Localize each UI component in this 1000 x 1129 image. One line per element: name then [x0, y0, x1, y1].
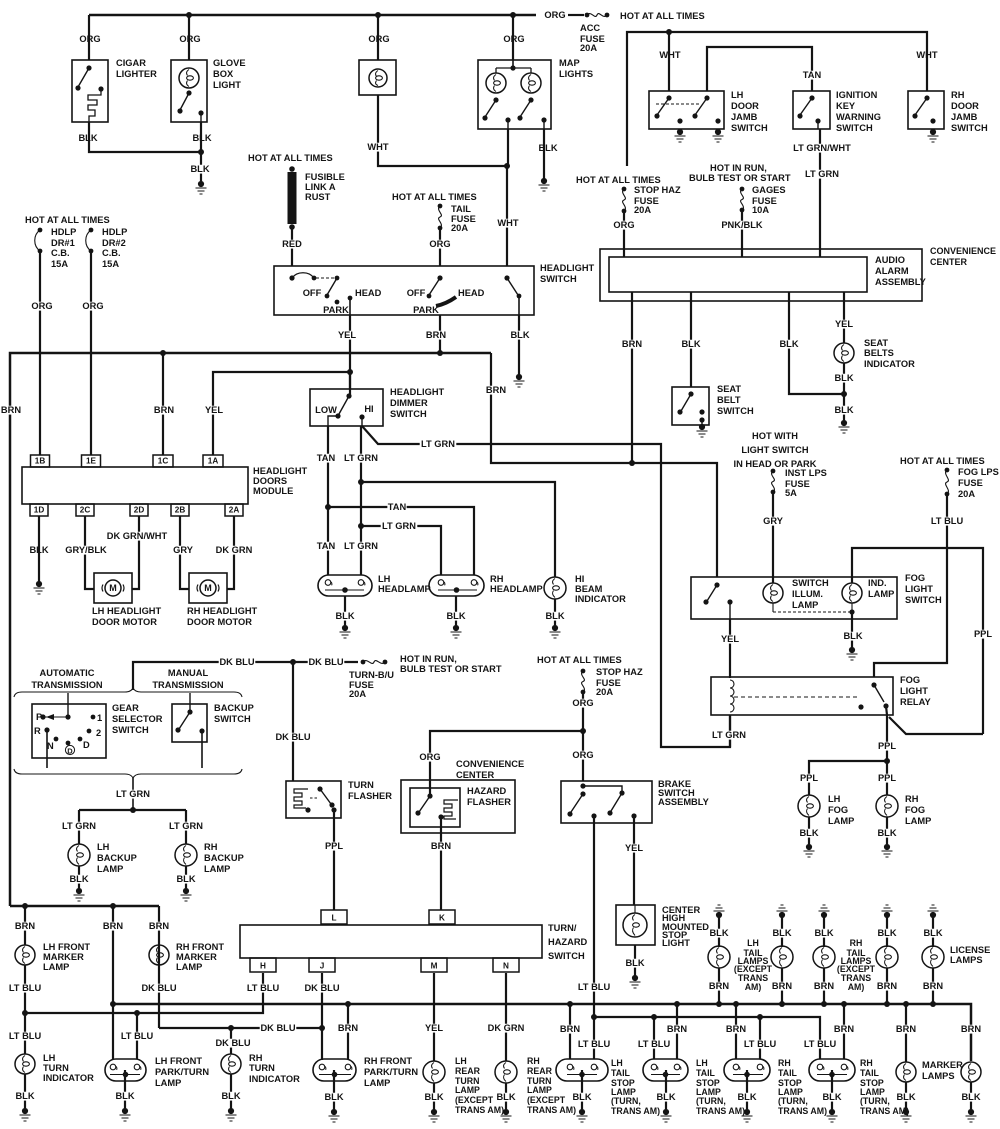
label ORG tail — [430, 240, 449, 249]
svg-text:BLK: BLK — [115, 1091, 134, 1101]
label LT BLU brake — [576, 983, 613, 992]
svg-text:DK GRN: DK GRN — [488, 1023, 525, 1033]
RH front park/turn lamp — [313, 1059, 356, 1081]
wire BLK tail lamp — [781, 915, 783, 947]
wire BLK tail stop — [581, 1070, 583, 1109]
svg-text:ASSEMBLY: ASSEMBLY — [875, 277, 927, 287]
svg-text:BRN: BRN — [667, 1024, 687, 1034]
svg-text:20A: 20A — [596, 687, 613, 697]
svg-text:BLK: BLK — [709, 928, 728, 938]
wire YEL fog switch to relay — [729, 619, 731, 678]
svg-text:ACC: ACC — [580, 23, 600, 33]
label BLK center stop — [625, 959, 644, 968]
label LT BLU LH 2 — [7, 1032, 44, 1041]
svg-text:SWITCH: SWITCH — [905, 595, 942, 605]
ground tail lamp top — [884, 912, 890, 918]
svg-text:LT GRN: LT GRN — [344, 453, 378, 463]
svg-text:SWITCH: SWITCH — [717, 406, 754, 416]
label BLK fog switch — [843, 632, 862, 641]
svg-text:WARNING: WARNING — [836, 112, 881, 122]
LH headlight door motor — [94, 573, 132, 603]
ground RH park/turn — [331, 1109, 337, 1115]
pin 2C — [76, 504, 94, 516]
wire BRN tail lamp — [781, 968, 783, 1004]
svg-text:1B: 1B — [35, 456, 46, 465]
junction LT BLU c2 — [651, 1014, 657, 1020]
wire LT BLU park/turn right pin — [136, 1013, 138, 1059]
seat belts indicator — [834, 343, 854, 363]
svg-text:ORG: ORG — [179, 34, 200, 44]
label BLK hi beam — [545, 612, 564, 621]
svg-text:20A: 20A — [634, 205, 651, 215]
label LT GRN inline 2 — [420, 440, 457, 449]
svg-text:SWITCH: SWITCH — [792, 578, 829, 588]
ground tail stop — [829, 1109, 835, 1115]
svg-text:BRN: BRN — [338, 1023, 358, 1033]
svg-text:BRN: BRN — [431, 841, 451, 851]
ground LH park/turn — [122, 1108, 128, 1114]
brace transmissions top — [14, 688, 242, 697]
label BRN c4 — [834, 1025, 853, 1034]
svg-text:SWITCH: SWITCH — [548, 951, 585, 961]
label PNK/BLK — [721, 221, 763, 230]
wire dome WHT — [378, 95, 507, 166]
svg-text:CONVENIENCE: CONVENIENCE — [930, 246, 996, 256]
svg-text:N: N — [47, 741, 54, 751]
svg-text:BLK: BLK — [324, 1092, 343, 1102]
wire BRN c2 — [676, 1004, 678, 1059]
svg-text:LAMP: LAMP — [176, 962, 202, 972]
wire DK BLU pin J — [321, 973, 323, 1060]
svg-text:PPL: PPL — [800, 773, 818, 783]
ground tail stop — [744, 1109, 750, 1115]
svg-text:LT BLU: LT BLU — [578, 1039, 611, 1049]
svg-text:FOG: FOG — [905, 805, 925, 815]
wire glove BLK down — [200, 122, 202, 181]
svg-text:BLK: BLK — [572, 1092, 591, 1102]
svg-text:INDICATOR: INDICATOR — [249, 1074, 300, 1084]
label BLK — [510, 331, 529, 340]
svg-text:DOOR: DOOR — [951, 101, 979, 111]
wire BLK tail lamp — [718, 915, 720, 947]
label BRN tail lamp — [772, 982, 791, 991]
label DK BLU 2 — [308, 658, 345, 667]
wire DK BLU to turn flasher — [292, 662, 294, 781]
svg-text:HEAD: HEAD — [458, 288, 485, 298]
svg-text:LH: LH — [611, 1058, 623, 1068]
svg-text:1: 1 — [97, 713, 102, 723]
svg-text:YEL: YEL — [338, 330, 356, 340]
wire BLK tail stop — [746, 1070, 748, 1109]
wire ORG to brake switch — [582, 694, 584, 781]
svg-text:OFF: OFF — [407, 288, 426, 298]
svg-text:REAR: REAR — [455, 1066, 481, 1076]
svg-text:BELTS: BELTS — [864, 348, 894, 358]
junction BRN tail lamp — [716, 1001, 722, 1007]
wire LT BLU to LH turn ind — [24, 1013, 26, 1054]
svg-text:DOOR: DOOR — [731, 101, 759, 111]
svg-text:BLK: BLK — [15, 1091, 34, 1101]
svg-text:ORG: ORG — [368, 34, 389, 44]
ground tail lamp top — [779, 912, 785, 918]
ground LH fog — [806, 844, 812, 850]
junction blk fog switch — [849, 609, 854, 614]
label LT BLU c4 — [802, 1040, 839, 1049]
svg-text:PPL: PPL — [325, 841, 343, 851]
ground LH door jamb 1 — [677, 129, 683, 135]
wire BRN main bus — [113, 1004, 971, 1061]
switch pivot 2 — [437, 275, 442, 280]
svg-text:LT BLU: LT BLU — [638, 1039, 671, 1049]
label BLK marker 2 — [961, 1093, 980, 1102]
svg-text:GAGES: GAGES — [752, 185, 786, 195]
svg-text:M: M — [109, 583, 117, 593]
svg-text:LIGHTS: LIGHTS — [559, 69, 593, 79]
svg-text:TAN: TAN — [317, 453, 336, 463]
junction LT BLU rear — [591, 1014, 597, 1020]
ground LH headlamp — [342, 625, 348, 631]
label BLK LH park — [115, 1092, 134, 1101]
label PPL right — [973, 630, 992, 639]
svg-text:AM): AM) — [848, 982, 865, 992]
svg-text:BRN: BRN — [426, 330, 446, 340]
label BLK LH backup — [69, 875, 88, 884]
tail lamp — [876, 946, 898, 968]
wire BRN LH front marker — [24, 906, 26, 945]
RH rear turn lamp — [495, 1061, 517, 1083]
svg-text:MARKER: MARKER — [176, 952, 217, 962]
svg-text:2A: 2A — [229, 505, 240, 514]
fuse ACC — [585, 13, 590, 18]
svg-text:GRY/BLK: GRY/BLK — [65, 545, 107, 555]
wire BLK to seat belt switch — [690, 292, 692, 387]
label BRN tail lamp — [877, 982, 896, 991]
junction LT GRN hi beam — [358, 479, 364, 485]
junction PPL — [884, 758, 890, 764]
label PPL relay — [877, 742, 896, 751]
center high mounted stop light — [616, 905, 655, 945]
wire RED to headlight switch — [291, 229, 293, 266]
label BRN RH park — [338, 1024, 357, 1033]
svg-text:LT GRN: LT GRN — [344, 541, 378, 551]
wire ORG 1B — [39, 253, 41, 455]
junction DK BLU turn ind — [228, 1025, 234, 1031]
svg-text:DOOR MOTOR: DOOR MOTOR — [92, 617, 157, 627]
svg-text:GEAR: GEAR — [112, 703, 139, 713]
svg-text:FOG: FOG — [905, 573, 925, 583]
svg-text:RH: RH — [490, 574, 504, 584]
fuse STOP HAZ 20A — [622, 187, 627, 192]
svg-text:HOT AT ALL TIMES: HOT AT ALL TIMES — [576, 175, 661, 185]
label BLK LH rear — [424, 1093, 443, 1102]
turn flasher — [286, 781, 341, 818]
wire ORG to headlight switch — [439, 230, 441, 266]
svg-text:1E: 1E — [86, 456, 97, 465]
label YEL 1A — [204, 406, 223, 415]
label BLK audio 2 — [779, 340, 798, 349]
svg-text:TRANS AM): TRANS AM) — [455, 1105, 504, 1115]
svg-text:D: D — [67, 746, 73, 755]
junction WHT — [504, 163, 510, 169]
wire BLK LH headlamp — [344, 596, 346, 625]
svg-text:20A: 20A — [349, 689, 366, 699]
svg-text:RH HEADLIGHT: RH HEADLIGHT — [187, 606, 258, 616]
wire top ORG bus — [89, 14, 536, 17]
wire GRY/BLK 2C — [85, 516, 94, 589]
junction BRN tail lamp — [821, 1001, 827, 1007]
svg-text:SWITCH: SWITCH — [731, 123, 768, 133]
label BLK tail stop — [656, 1093, 675, 1102]
wire PPL turn flasher — [333, 810, 335, 910]
label BRN marker 2 — [961, 1025, 980, 1034]
switch pivot 3 — [504, 275, 509, 280]
svg-text:HDLP: HDLP — [51, 227, 76, 237]
svg-text:ORG: ORG — [82, 301, 103, 311]
ground LH backup — [76, 888, 82, 894]
svg-text:(EXCEPT: (EXCEPT — [455, 1095, 494, 1105]
svg-text:PPL: PPL — [974, 629, 992, 639]
pin 1A — [203, 455, 223, 467]
junction BRN LH marker — [22, 903, 28, 909]
junction BRN headlight switch — [437, 350, 443, 356]
svg-text:RH: RH — [527, 1056, 540, 1066]
wire ORG drop to dome light — [377, 15, 379, 60]
wire DK BLU main — [133, 662, 358, 690]
svg-text:LIGHTER: LIGHTER — [116, 69, 157, 79]
svg-text:MANUAL: MANUAL — [168, 668, 209, 678]
svg-text:MARKER: MARKER — [922, 1060, 963, 1070]
svg-text:HEADLAMP: HEADLAMP — [490, 584, 543, 594]
label ORG brake 2 — [573, 751, 592, 760]
label BLK tail lamp — [814, 929, 833, 938]
wire BRN c3 — [735, 1004, 737, 1059]
svg-text:HEADLIGHT: HEADLIGHT — [540, 263, 595, 273]
RH front marker lamp — [149, 945, 169, 965]
LH rear turn lamp — [423, 1061, 445, 1083]
svg-text:INDICATOR: INDICATOR — [864, 359, 915, 369]
wire BLK RH fog — [886, 817, 888, 844]
svg-text:IGNITION: IGNITION — [836, 90, 878, 100]
svg-text:BLK: BLK — [961, 1092, 980, 1102]
svg-text:HEADLIGHT: HEADLIGHT — [253, 466, 308, 476]
brake switch assembly — [561, 781, 652, 823]
junction BRN park — [110, 903, 116, 909]
svg-text:HOT AT ALL TIMES: HOT AT ALL TIMES — [25, 215, 110, 225]
wire LT GRN to fog relay — [362, 426, 730, 747]
map lights — [478, 60, 551, 129]
ground hi beam — [552, 625, 558, 631]
wire BRN tail lamp — [886, 968, 888, 1004]
wire BLK LH park/turn — [124, 1070, 126, 1108]
svg-text:FUSE: FUSE — [958, 478, 983, 488]
svg-text:LAMP: LAMP — [204, 864, 230, 874]
svg-text:LT BLU: LT BLU — [744, 1039, 777, 1049]
svg-text:JAMB: JAMB — [731, 112, 758, 122]
wire BLK from audio alarm — [789, 292, 844, 394]
svg-text:HAZARD: HAZARD — [548, 937, 588, 947]
svg-text:BLK: BLK — [221, 1091, 240, 1101]
pin K — [429, 910, 455, 924]
LH tail stop lamp — [556, 1059, 608, 1081]
svg-text:ORG: ORG — [503, 34, 524, 44]
svg-text:YEL: YEL — [205, 405, 223, 415]
svg-text:BRN: BRN — [834, 1024, 854, 1034]
svg-text:LT GRN: LT GRN — [382, 521, 416, 531]
svg-text:TAN: TAN — [317, 541, 336, 551]
svg-text:LAMP: LAMP — [43, 962, 69, 972]
label BRN — [426, 331, 445, 340]
wire BLK tail lamp — [886, 915, 888, 947]
svg-text:PARK: PARK — [413, 305, 439, 315]
svg-text:SWITCH: SWITCH — [951, 123, 988, 133]
wire BLK LH turn ind — [24, 1074, 26, 1108]
wire cigar BLK to junction — [89, 122, 201, 152]
wire LT GRN/WHT down — [819, 129, 821, 257]
svg-text:TRANS AM): TRANS AM) — [778, 1106, 827, 1116]
svg-text:LAMP: LAMP — [905, 816, 931, 826]
wire BRN from headlight switch — [439, 315, 441, 353]
label PPL LH — [799, 774, 818, 783]
wire LT GRN to RH headlamp — [361, 526, 441, 575]
svg-text:DK BLU: DK BLU — [275, 732, 310, 742]
svg-text:BRN: BRN — [923, 981, 943, 991]
svg-text:LAMP: LAMP — [828, 816, 854, 826]
label LT BLU c3 — [742, 1040, 779, 1049]
svg-text:TRANS AM): TRANS AM) — [611, 1106, 660, 1116]
label LT GRN — [804, 170, 841, 179]
junction BRN c4 — [841, 1001, 847, 1007]
label BLK LH turn — [15, 1092, 34, 1101]
svg-text:TURN/: TURN/ — [548, 923, 577, 933]
wire LT GRN to hi beam indicator — [361, 482, 555, 577]
svg-text:LIGHT: LIGHT — [900, 686, 928, 696]
label YEL M — [424, 1024, 443, 1033]
svg-text:FOG LPS: FOG LPS — [958, 467, 999, 477]
ground RH door jamb — [930, 129, 936, 135]
svg-text:HOT AT ALL TIMES: HOT AT ALL TIMES — [248, 153, 333, 163]
wire LT BLU capsule1 — [593, 1017, 595, 1059]
turn/hazard switch — [240, 925, 542, 958]
LH headlamp — [318, 575, 372, 596]
label ORG 1E — [83, 302, 102, 311]
svg-text:FOG: FOG — [900, 675, 920, 685]
svg-text:BLK: BLK — [446, 611, 465, 621]
svg-text:2B: 2B — [175, 505, 186, 514]
svg-text:HEADLAMP: HEADLAMP — [378, 584, 431, 594]
svg-text:DIMMER: DIMMER — [390, 398, 428, 408]
LH door jamb switch — [649, 91, 724, 129]
ground LH door jamb 2 — [715, 129, 721, 135]
wire BRN tail lamp — [718, 968, 720, 1004]
svg-text:1D: 1D — [34, 505, 45, 514]
wire WHT to LH door jamb — [668, 32, 670, 91]
junction YEL dimmer — [347, 369, 353, 375]
svg-text:CENTER: CENTER — [456, 770, 495, 780]
label LT GRN 2 — [343, 542, 380, 551]
RH backup lamp — [175, 844, 197, 866]
wire LT BLU brake to rear — [593, 816, 595, 1017]
svg-text:HOT AT ALL TIMES: HOT AT ALL TIMES — [900, 456, 985, 466]
LH fog lamp — [798, 795, 820, 817]
svg-text:(TURN,: (TURN, — [860, 1096, 890, 1106]
junction BRN marker 1 — [903, 1001, 909, 1007]
svg-text:(EXCEPT: (EXCEPT — [527, 1095, 566, 1105]
ground headlight switch — [516, 374, 522, 380]
label BLK RH headlamp — [446, 612, 465, 621]
wire BLK seat belts ind — [843, 363, 845, 420]
label BRN tail lamp — [709, 982, 728, 991]
svg-text:GRY: GRY — [173, 545, 194, 555]
svg-text:BRN: BRN — [622, 339, 642, 349]
dome light — [359, 60, 396, 95]
label BRN tail lamp — [923, 982, 942, 991]
wire map BLK to ground — [543, 129, 545, 181]
label BRN LH marker — [15, 922, 34, 931]
svg-text:DK GRN/WHT: DK GRN/WHT — [107, 531, 168, 541]
label DK GRN/WHT — [107, 532, 167, 541]
ground marker 2 — [968, 1109, 974, 1115]
junction BLK seat belts — [841, 391, 847, 397]
svg-text:LH: LH — [731, 90, 744, 100]
label ORG brake 1 — [573, 699, 592, 708]
svg-text:LH: LH — [455, 1056, 467, 1066]
label LT BLU H — [245, 984, 282, 993]
svg-text:INST LPS: INST LPS — [785, 468, 827, 478]
label LT GRN/WHT — [792, 144, 852, 153]
label LT GRN RH — [168, 822, 205, 831]
label BLK tail lamp — [709, 929, 728, 938]
svg-text:M: M — [204, 583, 212, 593]
LH turn indicator — [15, 1054, 35, 1074]
svg-text:BRN: BRN — [15, 921, 35, 931]
svg-text:LH FRONT: LH FRONT — [43, 942, 90, 952]
label TAN 1 — [316, 454, 335, 463]
label LT GRN backup — [115, 790, 152, 799]
wire BLK 1D — [38, 516, 40, 583]
junction LT GRN — [130, 807, 136, 813]
svg-text:ORG: ORG — [572, 698, 593, 708]
svg-text:BRN: BRN — [896, 1024, 916, 1034]
backup switch — [172, 704, 207, 742]
ground RH headlamp — [453, 625, 459, 631]
label WHT dome — [368, 143, 387, 152]
junction BRN tail lamp — [884, 1001, 890, 1007]
svg-text:AUDIO: AUDIO — [875, 255, 905, 265]
label LT GRN 1 — [343, 454, 380, 463]
svg-text:LAMP: LAMP — [364, 1078, 390, 1088]
svg-text:TRANSMISSION: TRANSMISSION — [31, 680, 103, 690]
svg-text:DOOR MOTOR: DOOR MOTOR — [187, 617, 252, 627]
svg-text:LAMP: LAMP — [527, 1085, 552, 1095]
label GRY/BLK — [65, 546, 107, 555]
svg-text:RELAY: RELAY — [900, 697, 931, 707]
label LT BLU c1 — [576, 1040, 613, 1049]
svg-text:HI: HI — [575, 574, 584, 584]
label LT BLU c2 — [636, 1040, 673, 1049]
svg-text:RH: RH — [778, 1058, 791, 1068]
ground LH turn ind — [22, 1108, 28, 1114]
svg-text:LAMPS: LAMPS — [950, 955, 983, 965]
svg-text:HOT AT ALL TIMES: HOT AT ALL TIMES — [537, 655, 622, 665]
junction LT BLU c3 — [757, 1014, 763, 1020]
wire BLK LH fog — [808, 817, 810, 844]
svg-text:SWITCH: SWITCH — [836, 123, 873, 133]
wire BLK LH rear turn — [433, 1083, 435, 1109]
svg-text:HOT IN RUN,: HOT IN RUN, — [400, 654, 457, 664]
svg-text:SEAT: SEAT — [864, 338, 888, 348]
svg-text:LH HEADLIGHT: LH HEADLIGHT — [92, 606, 162, 616]
label BRN marker 1 — [896, 1025, 915, 1034]
